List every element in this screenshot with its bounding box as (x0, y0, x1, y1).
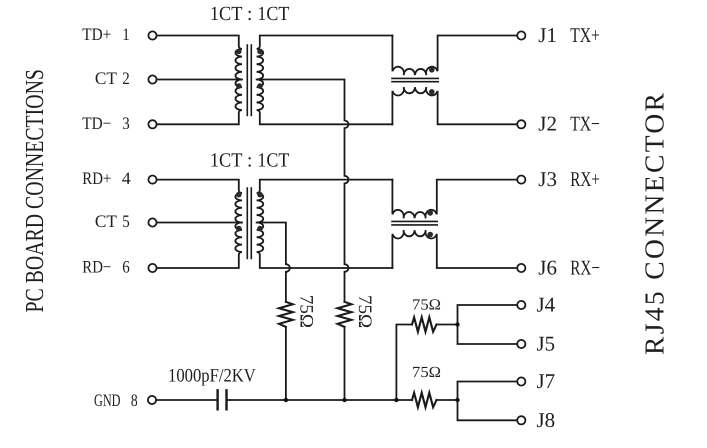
wire capacitor C1 to resistor R4 (GND bus) (228, 399, 412, 401)
label 1CT:1CT for T1 (210, 3, 289, 25)
svg-text:1CT: 1CT (210, 3, 243, 25)
svg-text:J7: J7 (537, 369, 556, 393)
terminal pin 5 CT (148, 218, 156, 226)
choke L1 polarity dots (429, 67, 435, 73)
transformer T1 secondary winding (257, 36, 393, 125)
svg-text:J2: J2 (538, 112, 557, 136)
junction dot R1/GND (284, 398, 288, 402)
svg-text:RJ45 CONNECTOR: RJ45 CONNECTOR (639, 92, 670, 355)
svg-text:J1: J1 (538, 23, 557, 47)
common-mode choke L1 bottom winding (J2 line) (392, 87, 517, 124)
svg-text:J3: J3 (538, 167, 557, 191)
common-mode choke L2 core (392, 221, 437, 225)
T2 polarity dots (236, 192, 242, 198)
resistor R4 75ohm (horizontal, J7/J8 branch) (412, 393, 437, 407)
svg-text:PC BOARD CONNECTIONS: PC BOARD CONNECTIONS (20, 69, 49, 312)
svg-text:75Ω: 75Ω (412, 364, 441, 381)
svg-text:GND: GND (94, 390, 121, 410)
svg-text:75Ω: 75Ω (354, 295, 375, 328)
terminal J1 (517, 31, 525, 39)
terminal J8 (517, 416, 525, 424)
wire GND bus up to resistor R3 (396, 325, 412, 401)
resistor R3 75ohm (horizontal, J4/J5 branch) (412, 317, 437, 331)
svg-text:TD−: TD− (82, 113, 111, 133)
transformer T2 core (247, 188, 251, 259)
svg-text:8: 8 (131, 390, 138, 410)
terminal pin 6 RD- (148, 264, 156, 272)
capacitor C1 1000pF/2KV plates (218, 390, 227, 409)
svg-text:1CT: 1CT (210, 150, 243, 172)
svg-text:CT: CT (95, 211, 117, 231)
terminal pin 2 CT (148, 75, 156, 83)
transformer T2 secondary winding (257, 180, 393, 268)
terminal J5 (517, 340, 525, 348)
svg-text:J4: J4 (537, 293, 556, 317)
svg-text:1000pF/2KV: 1000pF/2KV (168, 366, 256, 387)
junction dot R3 branch/GND (394, 398, 398, 402)
label 1CT:1CT for T2 (210, 150, 289, 172)
transformer T2 primary winding (pins 4-5-6 side) (157, 180, 242, 268)
wire node to J4 and J5 terminals (458, 305, 518, 344)
svg-text:TD+: TD+ (82, 24, 111, 44)
resistor R2 75ohm (vertical) (338, 302, 352, 327)
svg-text:6: 6 (122, 257, 130, 277)
svg-text:J6: J6 (538, 255, 557, 279)
svg-text:RD−: RD− (82, 257, 111, 277)
svg-text:75Ω: 75Ω (412, 297, 441, 314)
svg-text:RX+: RX+ (570, 167, 600, 191)
wire CT 5 to T2 primary center tap (157, 222, 242, 224)
terminal J3 (517, 176, 525, 184)
svg-text::: : (247, 150, 253, 172)
wire R1 bottom to GND line (285, 327, 287, 400)
svg-text:RD+: RD+ (82, 168, 111, 188)
wire node to J7 and J8 terminals (458, 382, 518, 421)
svg-text:1: 1 (122, 24, 130, 44)
resistor R1 75ohm (vertical) (279, 302, 293, 327)
terminal pin 4 RD+ (148, 176, 156, 184)
junction dot J7/J8 node (455, 398, 459, 402)
wire GND 8 to capacitor C1 (156, 399, 216, 401)
svg-text:J8: J8 (537, 408, 556, 432)
transformer T1 core (247, 45, 251, 116)
svg-text:TX−: TX− (570, 112, 600, 136)
wire R3 right to node J4/J5 (437, 324, 458, 326)
svg-text:1CT: 1CT (257, 150, 289, 172)
wire R2 bottom to GND line (344, 327, 346, 400)
wire CT 2 to T1 primary center tap (157, 79, 242, 81)
svg-text:TX+: TX+ (570, 23, 600, 47)
choke L2 polarity dots (427, 210, 433, 216)
terminal J7 (517, 377, 525, 385)
junction dot J4/J5 node (455, 322, 459, 326)
svg-text:2: 2 (122, 68, 130, 88)
common-mode choke L1 core (392, 78, 438, 81)
terminal J6 (517, 264, 525, 272)
transformer T1 primary winding (pins 1-2-3 side) (157, 36, 242, 125)
svg-text:CT: CT (95, 68, 117, 88)
svg-text:3: 3 (122, 113, 130, 133)
svg-text:RX−: RX− (570, 255, 600, 279)
wire R4 right to node J7/J8 (437, 399, 458, 401)
terminal J4 (517, 301, 525, 309)
terminal pin 8 GND (148, 396, 156, 404)
terminal pin 1 TD+ (148, 31, 156, 39)
svg-text::: : (247, 3, 253, 25)
junction dot R2/GND (342, 398, 346, 402)
wire T1 secondary center tap to resistor R2, hops over J2/J3/J6 lines (257, 80, 349, 302)
svg-text:5: 5 (122, 211, 130, 231)
common-mode choke L2 bottom winding (J6 line) (392, 230, 517, 268)
svg-text:J5: J5 (537, 332, 556, 356)
common-mode choke L2 top winding (J3 line) (392, 180, 517, 219)
T1 polarity dots (236, 49, 242, 55)
svg-text:75Ω: 75Ω (295, 295, 316, 328)
common-mode choke L1 top winding (J1 line) (392, 36, 517, 76)
terminal pin 3 TD- (148, 120, 156, 128)
svg-text:4: 4 (122, 168, 131, 188)
svg-text:1CT: 1CT (257, 3, 289, 25)
terminal J2 (517, 120, 525, 128)
wire T2 secondary center tap to resistor R1, hop over J6 line (257, 223, 290, 302)
